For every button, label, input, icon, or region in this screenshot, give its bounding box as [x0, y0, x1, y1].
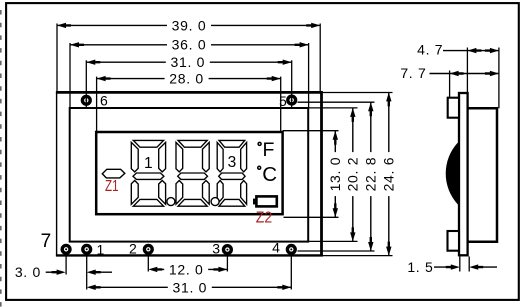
- svg-text:C: C: [262, 163, 277, 186]
- svg-text:Z1: Z1: [105, 178, 119, 195]
- svg-text:1. 5: 1. 5: [407, 259, 433, 275]
- svg-text:22. 8: 22. 8: [363, 157, 379, 192]
- svg-text:3. 0: 3. 0: [15, 264, 41, 280]
- svg-text:4. 7: 4. 7: [417, 42, 443, 58]
- svg-text:3: 3: [212, 240, 221, 256]
- svg-text:20. 2: 20. 2: [345, 157, 361, 192]
- svg-text:1: 1: [144, 155, 153, 172]
- svg-text:4: 4: [272, 239, 281, 255]
- svg-text:F: F: [263, 139, 275, 161]
- svg-text:7. 7: 7. 7: [400, 65, 426, 81]
- svg-text:31. 0: 31. 0: [172, 280, 207, 296]
- svg-text:12. 0: 12. 0: [169, 261, 204, 277]
- svg-text:3: 3: [228, 154, 237, 171]
- svg-text:31. 0: 31. 0: [170, 54, 205, 70]
- svg-text:5: 5: [279, 93, 288, 109]
- svg-text:13. 0: 13. 0: [327, 157, 343, 192]
- svg-text:7: 7: [41, 231, 52, 252]
- svg-text:36. 0: 36. 0: [172, 37, 207, 53]
- svg-text:2: 2: [129, 241, 138, 257]
- svg-text:28. 0: 28. 0: [169, 71, 204, 87]
- svg-text:6: 6: [100, 93, 109, 109]
- svg-text:1: 1: [96, 242, 105, 258]
- svg-text:39. 0: 39. 0: [172, 17, 207, 33]
- svg-text:Z2: Z2: [256, 209, 272, 226]
- svg-text:24. 6: 24. 6: [381, 157, 397, 192]
